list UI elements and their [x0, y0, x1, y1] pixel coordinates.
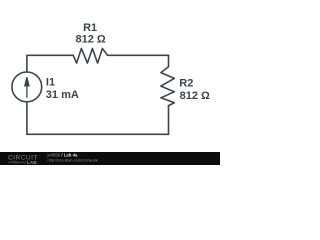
wire top-right horizontal	[108, 54, 169, 56]
wire top-left horizontal	[27, 55, 73, 72]
watermark bar	[0, 152, 220, 165]
svg-text:LAB: LAB	[27, 160, 37, 165]
current source I1 arrow	[25, 77, 29, 98]
wire right vertical	[168, 106, 170, 135]
svg-text:31 mA: 31 mA	[46, 89, 79, 101]
resistor R1	[73, 49, 107, 64]
svg-text:812 Ω: 812 Ω	[180, 90, 210, 102]
svg-text:http://circuitlab.com/c/2nku3k: http://circuitlab.com/c/2nku3k	[48, 157, 98, 162]
wire bottom horizontal	[27, 133, 169, 135]
current source I1 circle	[12, 72, 42, 102]
watermark logo LAB	[8, 161, 26, 163]
svg-text:R2: R2	[179, 78, 193, 90]
resistor R2	[161, 55, 174, 105]
svg-text:R1: R1	[83, 22, 97, 34]
labels	[46, 22, 210, 102]
svg-text:I1: I1	[46, 77, 55, 89]
wire left vertical bottom	[26, 102, 28, 134]
svg-text:812 Ω: 812 Ω	[76, 34, 106, 46]
